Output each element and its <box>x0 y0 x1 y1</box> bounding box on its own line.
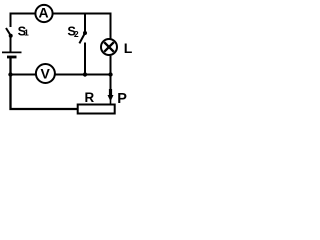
resistor R (rheostat body) <box>78 105 115 114</box>
wire S1 to battery <box>10 36 12 52</box>
switch S2 <box>79 31 87 43</box>
node junction left rail / voltmeter branch <box>8 72 12 76</box>
wire lamp to wiper node <box>110 56 112 75</box>
wire ammeter to top-right corner <box>53 14 110 39</box>
svg-text:P: P <box>117 91 127 107</box>
svg-text:A: A <box>39 5 49 21</box>
battery B1 <box>2 52 22 57</box>
node junction lamp branch / mid wire <box>108 72 112 76</box>
svg-text:R: R <box>85 90 95 105</box>
switch S2 branch wire from top <box>84 14 86 33</box>
wire battery down left rail to bottom wire <box>11 58 78 109</box>
wiper arrow P of rheostat <box>108 75 114 105</box>
voltmeter V1 <box>36 64 55 83</box>
label S2 <box>67 23 79 39</box>
svg-text:L: L <box>124 40 133 56</box>
node junction S2 / mid wire <box>83 72 87 76</box>
wire top-left to ammeter <box>11 14 35 28</box>
svg-text:2: 2 <box>74 29 79 39</box>
ammeter A1 <box>35 5 52 23</box>
wire junction to voltmeter <box>11 74 37 76</box>
wire S2 to mid wire <box>84 43 86 75</box>
svg-text:V: V <box>41 66 51 82</box>
svg-text:1: 1 <box>24 28 29 38</box>
switch S1 <box>6 28 13 38</box>
lamp L1 <box>101 39 117 55</box>
label S1 <box>18 23 29 38</box>
wire voltmeter to wiper node <box>55 74 110 76</box>
